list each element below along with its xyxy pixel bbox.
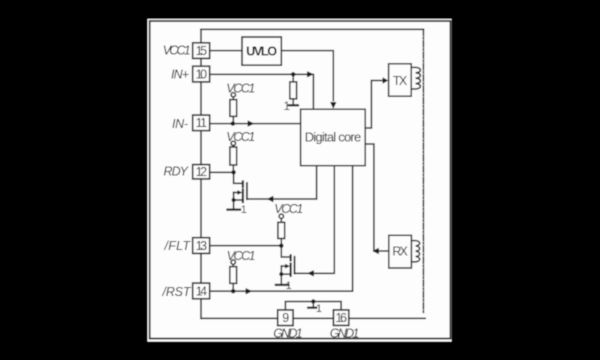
svg-text:Digital core: Digital core [305,129,362,144]
transistor Q2 drain wire [281,246,290,257]
arrowhead IN- toward core [248,120,255,126]
pin 14 box [193,283,210,299]
ground tick 1 between pins 9 and 16 [312,302,314,307]
svg-text:1: 1 [316,303,322,315]
arrowhead core to Q2 gate [307,270,314,276]
wire Q1 gate to digital core [247,166,317,199]
arrowhead core to Q1 gate [267,196,274,202]
transistor Q1 drain wire [234,172,243,183]
pin 13 box [193,238,210,254]
svg-text:/RST: /RST [162,285,192,299]
transistor Q1 body stub [234,192,238,194]
svg-text:VCC1: VCC1 [227,249,256,263]
wire IN- net [210,123,301,125]
svg-text:IN+: IN+ [171,68,189,82]
svg-text:VCC1: VCC1 [226,81,255,95]
VCC1 supply circle RST [231,260,235,264]
pin 11 box [193,115,210,131]
ground tick 1 under Q2 [276,284,289,286]
coil TX transformer winding [411,67,420,89]
svg-text:VCC1: VCC1 [163,43,191,57]
wire top rail from spine to isolation boundary [201,28,423,30]
svg-text:/FLT: /FLT [164,239,192,253]
arrowhead Q1 body arrow [237,190,242,195]
wire pin15 to UVLO [210,50,242,52]
white figure area [148,19,452,342]
VCC1 supply circle FLT [279,214,283,218]
wire RDY net [210,171,234,173]
wire digital core to TX [365,81,383,129]
svg-text:13: 13 [196,239,208,253]
resistor R-IN+ termination [290,74,297,105]
wire bottom ground rail [201,317,425,319]
svg-text:RDY: RDY [164,164,190,178]
pin 12 box [193,165,210,179]
wire UVLO to digital core [281,51,333,101]
pin 9 box [278,310,293,326]
junction dot Q2 source-body [279,272,283,276]
pin 16 box [333,310,348,326]
svg-text:15: 15 [196,44,208,58]
transistor Q1 gate bar [246,183,248,199]
arrowhead IN+ into core corner [307,71,314,77]
ground tick 1 under IN+ resistor [289,104,298,106]
pin 15 box [193,43,210,59]
transistor Q2 gate bar [294,257,296,274]
transistor Q2 source line [281,266,289,285]
junction dot IN- [231,121,235,125]
wire RX to digital core [365,144,389,251]
block RX box [389,235,412,268]
figure border frame [150,21,451,339]
wire GND1 pins join [285,302,341,310]
wire Q2 gate to digital core [295,166,335,274]
isolation boundary dash-dot line [422,29,424,313]
resistor R-RDY pullup [230,146,237,173]
arrowhead RX output [373,248,379,254]
transistor Q2 channel bar [290,255,292,275]
VCC1 supply circle IN- [231,93,235,97]
svg-text:VCC1: VCC1 [274,202,303,216]
block TX box [389,64,412,96]
wire /FLT net [210,245,282,247]
junction dot RDY [231,170,235,174]
arrowhead UVLO down into core [330,102,336,109]
junction dot /RST [231,289,235,293]
svg-text:16: 16 [335,311,347,325]
svg-text:12: 12 [196,165,208,179]
svg-text:11: 11 [196,116,208,130]
svg-text:14: 14 [196,284,208,298]
resistor R-FLT pullup [278,218,285,245]
svg-text:GND1: GND1 [273,327,303,341]
svg-text:GND1: GND1 [330,327,360,341]
block U1 digital core box [301,109,366,166]
transistor Q1 channel bar [242,182,244,203]
pin 10 box [193,66,210,82]
junction dot IN+ [291,72,295,76]
ground tick 1 under Q1 [228,208,241,210]
svg-text:10: 10 [196,67,208,81]
svg-text:1: 1 [241,204,247,216]
VCC1 supply circle RDY [231,141,235,145]
svg-text:RX: RX [392,245,408,259]
wire pin spine vertical [200,29,202,318]
svg-text:9: 9 [282,311,289,325]
wire IN+ net [210,74,314,109]
transistor Q1 source line [234,193,242,210]
svg-text:1: 1 [286,280,292,292]
svg-text:VCC1: VCC1 [226,130,255,144]
arrowhead into TX [383,77,389,83]
resistor R-IN- pullup [230,97,237,124]
junction dot /FLT [279,244,283,248]
coil RX transformer winding [411,241,419,262]
svg-text:1: 1 [284,99,291,113]
arrowhead /RST toward core [246,288,253,294]
junction dot GND tick [311,299,315,303]
junction dot Q1 source-body [232,198,236,202]
resistor R-RST pullup [230,264,237,291]
wire /RST net [210,166,353,292]
svg-text:UVLO: UVLO [246,45,277,59]
transistor Q2 body stub [281,265,285,267]
svg-text:TX: TX [393,74,408,88]
svg-text:IN-: IN- [172,117,188,131]
block UVLO box [242,37,281,65]
arrowhead Q2 body arrow [285,264,290,269]
